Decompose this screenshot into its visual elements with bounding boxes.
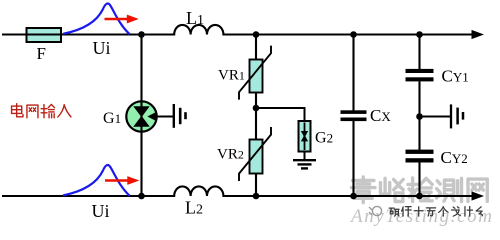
svg-text:G1: G1 bbox=[103, 110, 121, 127]
svg-text:CY1: CY1 bbox=[442, 67, 469, 86]
svg-text:Ui: Ui bbox=[93, 38, 111, 58]
svg-text:F: F bbox=[37, 44, 46, 63]
svg-text:CX: CX bbox=[370, 106, 391, 125]
svg-text:VR1: VR1 bbox=[218, 68, 245, 84]
svg-text:CY2: CY2 bbox=[441, 148, 468, 167]
svg-text:VR2: VR2 bbox=[217, 147, 244, 163]
svg-text:Ui: Ui bbox=[92, 201, 110, 221]
svg-text:G2: G2 bbox=[315, 130, 333, 147]
